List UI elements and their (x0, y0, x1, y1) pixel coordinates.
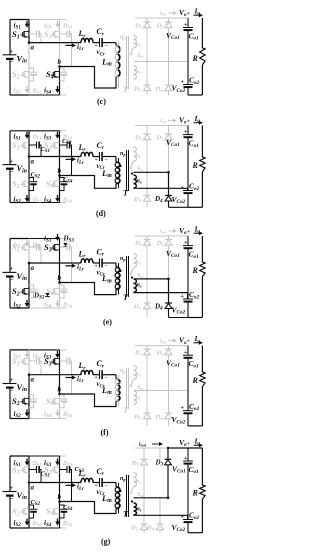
svg-text:np: np (120, 256, 126, 262)
svg-text:isec: isec (160, 11, 167, 17)
svg-text:Sw: Sw (137, 273, 143, 279)
svg-text:(d): (d) (96, 209, 106, 218)
svg-text:−: − (10, 59, 14, 66)
svg-text:np: np (120, 35, 126, 41)
svg-text:ns: ns (137, 283, 142, 289)
svg-text:ns: ns (136, 479, 141, 485)
svg-text:DS4: DS4 (62, 303, 73, 309)
svg-text:+: + (187, 338, 190, 344)
svg-text:−: − (105, 375, 108, 381)
svg-text:R: R (192, 161, 199, 170)
svg-text:(c): (c) (97, 97, 106, 106)
svg-text:DS4: DS4 (62, 198, 73, 204)
svg-text:(g): (g) (101, 537, 111, 546)
svg-text:DS4: DS4 (62, 521, 73, 527)
svg-text:−: − (10, 277, 14, 284)
svg-text:ns: ns (137, 507, 142, 513)
svg-text:iout: iout (139, 442, 147, 448)
svg-text:−: − (105, 483, 108, 489)
svg-text:DS2: DS2 (32, 198, 43, 204)
svg-text:(e): (e) (103, 318, 112, 327)
svg-text:+: + (10, 49, 14, 55)
svg-text:isec: isec (160, 229, 167, 235)
svg-text:ns: ns (137, 179, 142, 185)
svg-text:ns: ns (136, 260, 141, 266)
svg-text:+: + (10, 486, 14, 492)
svg-text:ns: ns (136, 153, 141, 159)
svg-text:np: np (120, 368, 126, 374)
svg-text:(f): (f) (101, 428, 109, 437)
svg-text:np: np (120, 476, 126, 482)
svg-text:+: + (187, 441, 190, 447)
svg-text:−: − (105, 157, 108, 163)
svg-text:+: + (10, 378, 14, 384)
svg-text:R: R (192, 376, 199, 385)
svg-text:b: b (58, 493, 62, 501)
svg-text:+: + (187, 11, 190, 17)
svg-text:DS3: DS3 (62, 23, 73, 29)
svg-text:a: a (31, 44, 35, 52)
svg-text:ns: ns (136, 372, 141, 378)
svg-text:ns: ns (136, 42, 141, 48)
svg-text:DS1: DS1 (32, 134, 42, 140)
svg-text:a: a (31, 484, 35, 492)
svg-text:b: b (58, 386, 62, 394)
svg-text:isec: isec (160, 338, 167, 344)
svg-text:b: b (58, 274, 62, 282)
svg-text:−: − (10, 496, 14, 503)
svg-text:+: + (187, 229, 190, 235)
svg-text:DS2: DS2 (32, 521, 43, 527)
svg-text:−: − (10, 169, 14, 176)
svg-text:R: R (192, 54, 199, 63)
svg-text:R: R (192, 266, 199, 275)
svg-text:−: − (10, 388, 14, 395)
svg-text:+: + (10, 159, 14, 165)
svg-text:b: b (58, 167, 62, 175)
svg-text:−: − (105, 264, 108, 270)
svg-text:R: R (192, 489, 199, 498)
svg-text:np: np (120, 151, 126, 157)
svg-text:a: a (31, 158, 35, 166)
svg-text:DS2: DS2 (32, 89, 43, 95)
svg-text:ns: ns (136, 395, 141, 401)
svg-text:a: a (31, 376, 35, 384)
svg-text:DS4: DS4 (62, 412, 73, 418)
svg-text:−: − (105, 43, 108, 49)
svg-text:isec: isec (160, 118, 167, 124)
svg-text:a: a (31, 264, 35, 272)
svg-text:Sw: Sw (137, 53, 143, 59)
svg-text:+: + (10, 267, 14, 273)
svg-text:+: + (187, 118, 190, 124)
svg-text:ns: ns (136, 69, 141, 75)
svg-text:b: b (58, 58, 62, 66)
